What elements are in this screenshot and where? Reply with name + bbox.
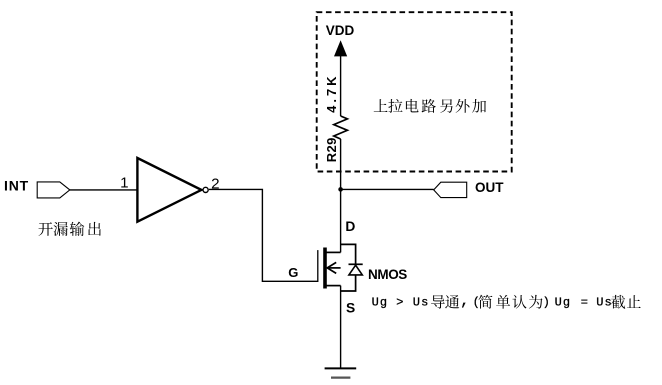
svg-text:NMOS: NMOS bbox=[368, 267, 407, 282]
svg-text:>: > bbox=[396, 295, 404, 309]
svg-text:R29: R29 bbox=[324, 137, 339, 162]
svg-text:INT: INT bbox=[4, 178, 29, 194]
svg-text:,: , bbox=[460, 293, 470, 310]
svg-text:4.7K: 4.7K bbox=[324, 73, 339, 112]
svg-text:1: 1 bbox=[120, 175, 128, 192]
svg-text:D: D bbox=[345, 219, 355, 234]
svg-text:2: 2 bbox=[211, 175, 219, 192]
svg-text:Ug: Ug bbox=[555, 295, 572, 309]
svg-text:S: S bbox=[346, 300, 355, 315]
svg-text:): ) bbox=[543, 295, 551, 309]
svg-text:=: = bbox=[581, 295, 589, 309]
svg-text:Us: Us bbox=[413, 295, 430, 309]
svg-text:Us: Us bbox=[596, 295, 613, 309]
svg-text:OUT: OUT bbox=[475, 180, 504, 195]
svg-text:Ug: Ug bbox=[372, 295, 389, 309]
svg-text:(: ( bbox=[473, 295, 481, 309]
svg-text:G: G bbox=[288, 265, 298, 280]
svg-text:VDD: VDD bbox=[326, 23, 355, 38]
